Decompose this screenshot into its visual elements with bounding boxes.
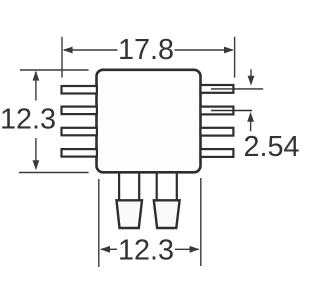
svg-text:12.3: 12.3 [118, 234, 174, 266]
left dimension up arrowhead [33, 71, 40, 81]
svg-text:17.8: 17.8 [118, 34, 174, 66]
left pin 3 [62, 128, 97, 136]
bottom peg 1 shank [119, 173, 139, 200]
right pin 3 [201, 128, 234, 136]
left dimension line lower segment [35, 138, 37, 169]
bottom peg 2 shank [157, 173, 177, 200]
bottom dimension line right segment [175, 248, 199, 250]
left pin 1 [62, 86, 97, 94]
right pitch dimension down arrow shaft [250, 69, 252, 79]
top dimension right arrowhead [224, 47, 234, 54]
svg-text:2.54: 2.54 [243, 131, 299, 163]
left dimension top extension line [20, 69, 89, 71]
right pin 4 [201, 149, 234, 157]
bottom dimension left extension line [98, 179, 100, 267]
left dimension bottom extension line [19, 172, 89, 174]
left dimension down arrowhead [33, 160, 40, 170]
bottom dimension line left segment [101, 248, 117, 250]
left dimension line upper segment [35, 72, 37, 101]
package body outline [97, 70, 201, 173]
bottom dimension right arrowhead [190, 246, 200, 253]
right pin 1 [201, 85, 234, 93]
right pitch dimension down arrowhead [248, 76, 255, 86]
right pin 1 center line [211, 88, 263, 90]
top dimension line right segment [175, 49, 233, 51]
top dimension left arrowhead [63, 47, 73, 54]
bottom peg 2 foot [154, 200, 180, 228]
top dimension line left segment [64, 49, 118, 51]
left pin 2 [62, 107, 97, 115]
right pitch dimension up arrowhead [247, 112, 254, 122]
svg-text:12.3: 12.3 [0, 103, 56, 135]
bottom peg 1 foot [117, 200, 143, 228]
right pin 2 [201, 107, 234, 115]
top dimension left extension line [61, 37, 63, 78]
bottom dimension left arrowhead [100, 246, 110, 253]
right pin 2 center line [211, 110, 252, 112]
bottom dimension right extension line [200, 178, 202, 266]
right pitch dimension up arrow shaft [250, 121, 252, 132]
top dimension right extension line [234, 37, 236, 78]
left pin 4 [62, 149, 97, 157]
